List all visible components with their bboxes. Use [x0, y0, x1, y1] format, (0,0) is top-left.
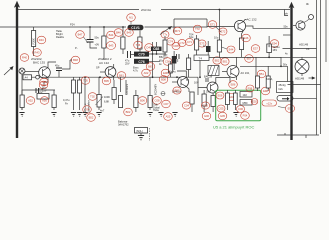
svg-text:B47: B47	[78, 33, 83, 37]
transistor Q4 internals	[181, 78, 186, 87]
wire below resistor x241	[241, 50, 243, 58]
svg-text:50x: 50x	[283, 63, 288, 67]
svg-text:U5 a 21 alimpuyrt ROC: U5 a 21 alimpuyrt ROC	[213, 125, 254, 130]
transistor Q8 circle	[227, 66, 239, 78]
svg-text:AC 132,: AC 132,	[241, 71, 250, 75]
svg-text:B45: B45	[127, 31, 132, 35]
red circle E44	[227, 46, 235, 53]
node bus junction at antenna	[16, 26, 18, 28]
electrolytic cap 2200u	[267, 44, 272, 53]
wire Q6 base from mast	[293, 25, 296, 27]
wire x186 stubs	[188, 54, 190, 77]
wire stubs below x257 x268	[258, 66, 269, 91]
svg-text:fork: fork	[279, 87, 284, 91]
red circle E94	[270, 40, 279, 48]
svg-text:AD149: AD149	[295, 77, 305, 81]
wire Q3 collector to label wire	[243, 20, 246, 22]
wire Q5 base	[198, 77, 207, 95]
svg-text:T72: T72	[195, 27, 200, 31]
svg-text:F04: F04	[243, 114, 248, 118]
svg-text:50x: 50x	[284, 25, 289, 29]
red circle C56	[163, 58, 172, 66]
svg-text:A44: A44	[42, 80, 47, 84]
svg-text:AD149: AD149	[299, 43, 309, 47]
potentiometer box x99	[97, 95, 101, 108]
red circle B52	[213, 57, 221, 64]
svg-text:B02: B02	[175, 89, 180, 93]
svg-text:C6: C6	[306, 47, 310, 51]
svg-text:AC 132: AC 132	[99, 61, 109, 65]
svg-text:B52: B52	[215, 59, 220, 63]
wire row y57 right	[281, 56, 317, 58]
red circle T56	[134, 41, 143, 49]
red circle C07	[162, 100, 171, 108]
red circle C72	[178, 39, 186, 46]
svg-text:E05: E05	[203, 104, 208, 108]
red circle E71	[208, 21, 217, 29]
svg-text:wh: wh	[285, 12, 289, 16]
svg-text:B51: B51	[259, 72, 264, 76]
rail right C short	[325, 0, 327, 62]
box A4	[23, 75, 32, 80]
svg-text:45u: 45u	[159, 59, 164, 63]
wire Q5 collector up	[216, 78, 230, 84]
red circle A55	[164, 113, 173, 121]
svg-text:T56: T56	[136, 43, 141, 47]
svg-text:R40: R40	[22, 56, 27, 60]
red circle R44	[39, 81, 48, 89]
wire cap to pill	[131, 54, 135, 56]
svg-text:+0V: +0V	[95, 43, 100, 47]
wire Q4 collector	[177, 71, 186, 78]
red circle A62	[142, 69, 151, 77]
ground G1	[19, 113, 24, 117]
resistor R mid2	[121, 37, 125, 49]
red circle E98	[261, 87, 270, 95]
wire x22 resistor stubs	[21, 90, 23, 110]
transistor Q6 internals	[299, 22, 304, 29]
transistor Q7 circle right	[295, 60, 309, 74]
wire verticals x120 x126	[121, 77, 127, 95]
wire Q8 collector up	[236, 57, 238, 66]
svg-text:E71: E71	[210, 23, 215, 27]
wire below resistor x219	[207, 27, 234, 58]
wire drop to resistor col x123	[122, 27, 124, 37]
wire long vertical x156	[156, 42, 158, 54]
svg-text:40x 4u: 40x 4u	[168, 70, 176, 74]
svg-text:C07: C07	[164, 102, 169, 106]
thermistor link	[304, 19, 309, 23]
svg-text:T04: T04	[85, 108, 90, 112]
transistor Q2 internals	[109, 68, 114, 77]
svg-text:C72: C72	[180, 41, 185, 45]
transformer hatched box	[208, 66, 219, 76]
svg-text:E98: E98	[263, 89, 268, 93]
svg-text:B44: B44	[109, 33, 114, 37]
svg-text:B08: B08	[161, 78, 166, 82]
wire below resistor mid3	[139, 49, 141, 52]
wire drop to resistor col x140	[139, 31, 141, 38]
capacitor small x178	[177, 54, 180, 59]
svg-text:C08: C08	[155, 99, 160, 103]
annotation arrow mid top	[160, 28, 170, 35]
red circle C71	[186, 38, 194, 45]
resistor R mid1	[102, 36, 106, 48]
svg-text:(SQL): (SQL)	[136, 129, 143, 133]
wire corner below H1 end	[285, 10, 289, 16]
red circle T05	[81, 77, 90, 85]
red circle C04	[182, 102, 190, 109]
red circle F96	[246, 85, 254, 92]
red circle M1 above pill	[127, 14, 136, 22]
svg-text:64u: 64u	[189, 35, 194, 39]
svg-text:SP: SP	[96, 66, 100, 70]
box 102	[240, 92, 252, 98]
resistor x219	[217, 40, 221, 52]
ground G4	[77, 113, 82, 117]
svg-text:T4: T4	[199, 56, 203, 60]
node junction x152	[152, 53, 154, 55]
wire cap x178 stub	[177, 59, 179, 62]
svg-text:0,47u: 0,47u	[63, 98, 70, 102]
wire bus H2 continuation	[145, 26, 208, 28]
resistor x204 low	[202, 94, 206, 106]
svg-text:P20K: P20K	[32, 38, 36, 45]
rail right A	[316, 0, 318, 135]
red circle E96	[285, 105, 294, 113]
svg-text:M50: M50	[243, 101, 249, 105]
electrolytic small x208	[206, 46, 211, 52]
resistor x150 low	[148, 96, 152, 108]
resistor x186	[187, 58, 191, 70]
svg-text:B46: B46	[116, 31, 121, 35]
svg-text:Hohe: Hohe	[153, 108, 160, 112]
thermistor circle	[309, 15, 314, 20]
svg-text:C71: C71	[187, 40, 192, 44]
svg-text:A62: A62	[144, 71, 149, 75]
wire long vertical x152	[152, 42, 154, 77]
wire x150 stubs	[149, 77, 151, 110]
red circle R40	[20, 54, 29, 62]
wire corner x256 down	[255, 57, 257, 76]
svg-text:C1V1: C1V1	[131, 26, 140, 30]
wire row y66	[240, 65, 288, 67]
symbol theta	[161, 92, 165, 96]
svg-text:B05: B05	[104, 79, 109, 83]
red circle E02	[251, 99, 258, 105]
svg-text:A55: A55	[166, 115, 171, 119]
red circle E05	[201, 102, 209, 109]
svg-text:100K: 100K	[104, 95, 110, 99]
svg-text:BAC 135: BAC 135	[33, 61, 45, 65]
svg-text:B48: B48	[73, 58, 78, 62]
wire fork to rail	[293, 97, 317, 99]
resistor P20K	[32, 31, 36, 47]
wire row y57	[209, 56, 281, 58]
red circle A44	[40, 78, 49, 86]
transistor Q1 internals	[43, 68, 49, 78]
red circle E46	[242, 34, 251, 42]
transistor Q5 circle	[207, 82, 218, 93]
svg-text:16V: 16V	[273, 48, 278, 52]
red circle R4C	[37, 36, 46, 44]
svg-text:SN7402N: SN7402N	[125, 84, 129, 95]
resistor x114	[112, 88, 116, 100]
wire pills to junctions	[149, 54, 166, 61]
red circle B43	[106, 42, 115, 50]
red circle E73	[198, 40, 206, 47]
red circle B63	[146, 63, 155, 71]
wire x170 stubs	[169, 61, 171, 77]
svg-text:10u: 10u	[214, 36, 219, 40]
rail right B	[320, 0, 322, 134]
svg-text:B63: B63	[148, 65, 153, 69]
transistor Q6 circle top right	[296, 21, 305, 30]
svg-text:C74: C74	[168, 40, 173, 44]
red circle C74	[167, 38, 175, 45]
svg-text:4,7u: 4,7u	[133, 69, 139, 73]
svg-text:B52: B52	[89, 116, 94, 120]
svg-text:C04: C04	[184, 104, 189, 108]
wire Q7 stubs	[301, 57, 303, 76]
wire top bus H1 right part	[161, 9, 290, 11]
svg-text:M1: M1	[129, 16, 133, 20]
resistor x192 low	[190, 92, 194, 104]
svg-text:M71: M71	[175, 29, 181, 33]
wire row y84.5 right	[288, 84, 321, 86]
leader to E96	[278, 107, 286, 109]
red circle B08	[159, 76, 168, 84]
relay pill C1V1	[128, 25, 144, 30]
svg-text:B5x: B5x	[159, 55, 164, 59]
svg-text:AC 132: AC 132	[247, 18, 257, 22]
wire stubs low resistors	[192, 90, 213, 112]
svg-text:B06: B06	[140, 99, 145, 103]
tick x285	[284, 133, 286, 135]
svg-text:25mfg: 25mfg	[279, 83, 287, 87]
svg-text:6V: 6V	[186, 78, 189, 82]
resistor pair right x78	[78, 80, 82, 93]
red circle E86	[229, 81, 238, 89]
leader from E71	[216, 27, 221, 32]
svg-text:B43: B43	[109, 44, 114, 48]
svg-text:E86: E86	[231, 83, 236, 87]
electrolytic cap dark x174	[172, 56, 177, 64]
svg-text:B51: B51	[223, 60, 228, 64]
wire below cap 50u	[90, 42, 97, 48]
wire 2200u stubs	[268, 36, 270, 57]
annotation arrow to antenna	[4, 68, 12, 76]
annotation arrow right rail	[309, 77, 314, 79]
wire 45u to right components	[62, 60, 72, 69]
red circle T04	[83, 106, 92, 114]
svg-text:+12v: +12v	[266, 101, 273, 105]
wire below	[103, 48, 105, 60]
ground G3	[71, 113, 76, 117]
capacitor 50u plates	[87, 40, 94, 43]
wire x287 down	[287, 66, 289, 84]
node junction x156	[156, 53, 158, 55]
red pill +12V	[262, 100, 277, 106]
relay pill C76	[134, 59, 149, 64]
svg-text:G05: G05	[220, 114, 226, 118]
wire mic to base	[25, 71, 39, 73]
capacitor plus electrolytic x207	[205, 79, 209, 81]
capacitor 47u 25V	[128, 51, 131, 58]
wire SQL to ground	[140, 133, 142, 136]
red circle B05	[102, 77, 111, 85]
red circle F04	[241, 112, 250, 120]
svg-text:A52: A52	[28, 99, 33, 103]
svg-text:45u: 45u	[55, 64, 60, 68]
wire bottom-left row	[32, 76, 61, 78]
svg-text:G06: G06	[204, 114, 210, 118]
wire Q2 collector	[113, 64, 115, 68]
red circle C06	[237, 106, 245, 113]
svg-text:P-: P-	[75, 46, 78, 50]
svg-text:C76: C76	[138, 60, 144, 64]
svg-text:4n7: 4n7	[100, 109, 105, 113]
ground G5	[82, 113, 87, 117]
wire T4 connections	[196, 35, 198, 55]
transistor Q7 internals crossed	[297, 62, 307, 72]
antenna right arrowhead	[289, 2, 295, 8]
wire pot stubs	[98, 77, 100, 110]
resistor A52 column	[20, 95, 24, 108]
svg-text:102: 102	[243, 93, 248, 97]
svg-text:16V: 16V	[206, 90, 211, 94]
microphone circle	[19, 68, 25, 74]
ground G9	[172, 113, 177, 117]
relay pill C68	[151, 47, 162, 51]
resistor x122 low	[118, 96, 122, 108]
red circle B47	[76, 31, 85, 39]
ground G11	[138, 136, 144, 140]
wire x114 stubs	[113, 80, 115, 104]
resistor x196	[195, 39, 199, 50]
svg-text:E37: E37	[253, 47, 258, 51]
antenna left arrowhead	[14, 1, 20, 8]
svg-text:0AA1792: 0AA1792	[118, 123, 129, 127]
svg-text:C56: C56	[165, 60, 170, 64]
wire x281 v	[280, 57, 282, 66]
red circle E04	[228, 94, 236, 101]
box SQL	[135, 128, 148, 134]
svg-text:P24: P24	[70, 23, 75, 27]
potentiometer arrow	[96, 97, 104, 106]
red circle E06	[216, 92, 224, 99]
wire bus H2	[0, 26, 126, 28]
green highlight box	[216, 90, 261, 121]
wire top bus H1 left part	[18, 9, 139, 11]
wire row y90	[22, 89, 55, 91]
svg-text:Raddis: Raddis	[56, 35, 65, 39]
capacitor at 38,90	[36, 88, 39, 93]
svg-text:F96: F96	[248, 87, 253, 91]
node mast bottom junction	[290, 134, 292, 136]
wire green resistor stubs	[227, 90, 235, 110]
svg-text:A50: A50	[42, 99, 47, 103]
resistor green2	[234, 93, 238, 105]
red circle B45	[125, 29, 134, 37]
svg-text:R4C: R4C	[39, 38, 44, 42]
transistor Q4 circle	[178, 77, 189, 88]
resistor green1	[225, 93, 229, 105]
red circle B51	[221, 58, 229, 65]
transistor Q5 internals	[211, 83, 216, 92]
svg-text:C68: C68	[153, 47, 159, 51]
resistor pair right x73	[72, 80, 76, 93]
resistor x165	[163, 40, 167, 52]
wire Q4 base	[172, 81, 178, 83]
red circle B51b	[257, 70, 266, 78]
wire x54 up	[53, 90, 55, 110]
wire box corner from bus	[174, 19, 207, 33]
wire Q2 emitter	[113, 76, 115, 80]
ground G2	[51, 113, 56, 117]
wire right y35	[283, 34, 290, 36]
fuse pill with arrow	[277, 96, 293, 102]
svg-text:T02: T02	[90, 95, 95, 99]
wire Q3 emitter path to right	[242, 30, 244, 38]
ground G8	[158, 113, 163, 117]
wire drop to cap 50u	[89, 27, 91, 40]
red circle B06	[138, 97, 147, 105]
red circle M71	[173, 27, 182, 35]
svg-text:C70: C70	[138, 53, 144, 57]
red circle R43	[33, 49, 42, 57]
ground G7	[147, 113, 152, 117]
red circle B02	[124, 108, 133, 116]
red circle B61	[117, 72, 126, 80]
wire mic down to ground	[21, 74, 23, 110]
red circle E72	[219, 28, 227, 35]
wire Q1 collector up	[48, 62, 56, 68]
svg-text:E94: E94	[272, 42, 277, 46]
wire Q3 output L path	[246, 26, 291, 28]
svg-text:C06: C06	[238, 107, 243, 111]
svg-text:B02: B02	[126, 110, 131, 114]
dashed bracket	[149, 128, 151, 141]
wire T4 bottom to bus	[199, 61, 201, 78]
red circle B02b	[173, 87, 181, 94]
wire below P20K	[33, 47, 35, 57]
svg-text:BAC28: BAC28	[204, 75, 213, 79]
red circle C05	[217, 105, 225, 112]
resistor x213 low	[211, 96, 215, 107]
red circle G05	[218, 112, 227, 120]
box 25mfg fork	[277, 82, 294, 93]
red circle B52g	[87, 114, 96, 122]
resistor x136 low	[134, 96, 138, 108]
red circle G06	[202, 112, 211, 120]
red circle T02	[88, 93, 97, 101]
transistor Q3 internals	[238, 22, 243, 31]
red circle B48	[71, 56, 80, 64]
wire Q4 emitter	[186, 86, 189, 92]
red circle D66	[161, 31, 169, 38]
red circle C08	[153, 97, 162, 105]
resistor x241	[239, 38, 243, 50]
svg-text:A21A,: A21A,	[266, 77, 273, 81]
wire drop to resistor B44	[103, 27, 105, 36]
antenna right mast	[290, 6, 292, 140]
leader line from B47	[84, 37, 89, 43]
svg-text:BC204BY: BC204BY	[154, 84, 158, 95]
wire drop to R P20K	[33, 27, 35, 31]
tick below bottom bus	[305, 135, 307, 138]
wire right y44.5	[283, 48, 317, 50]
